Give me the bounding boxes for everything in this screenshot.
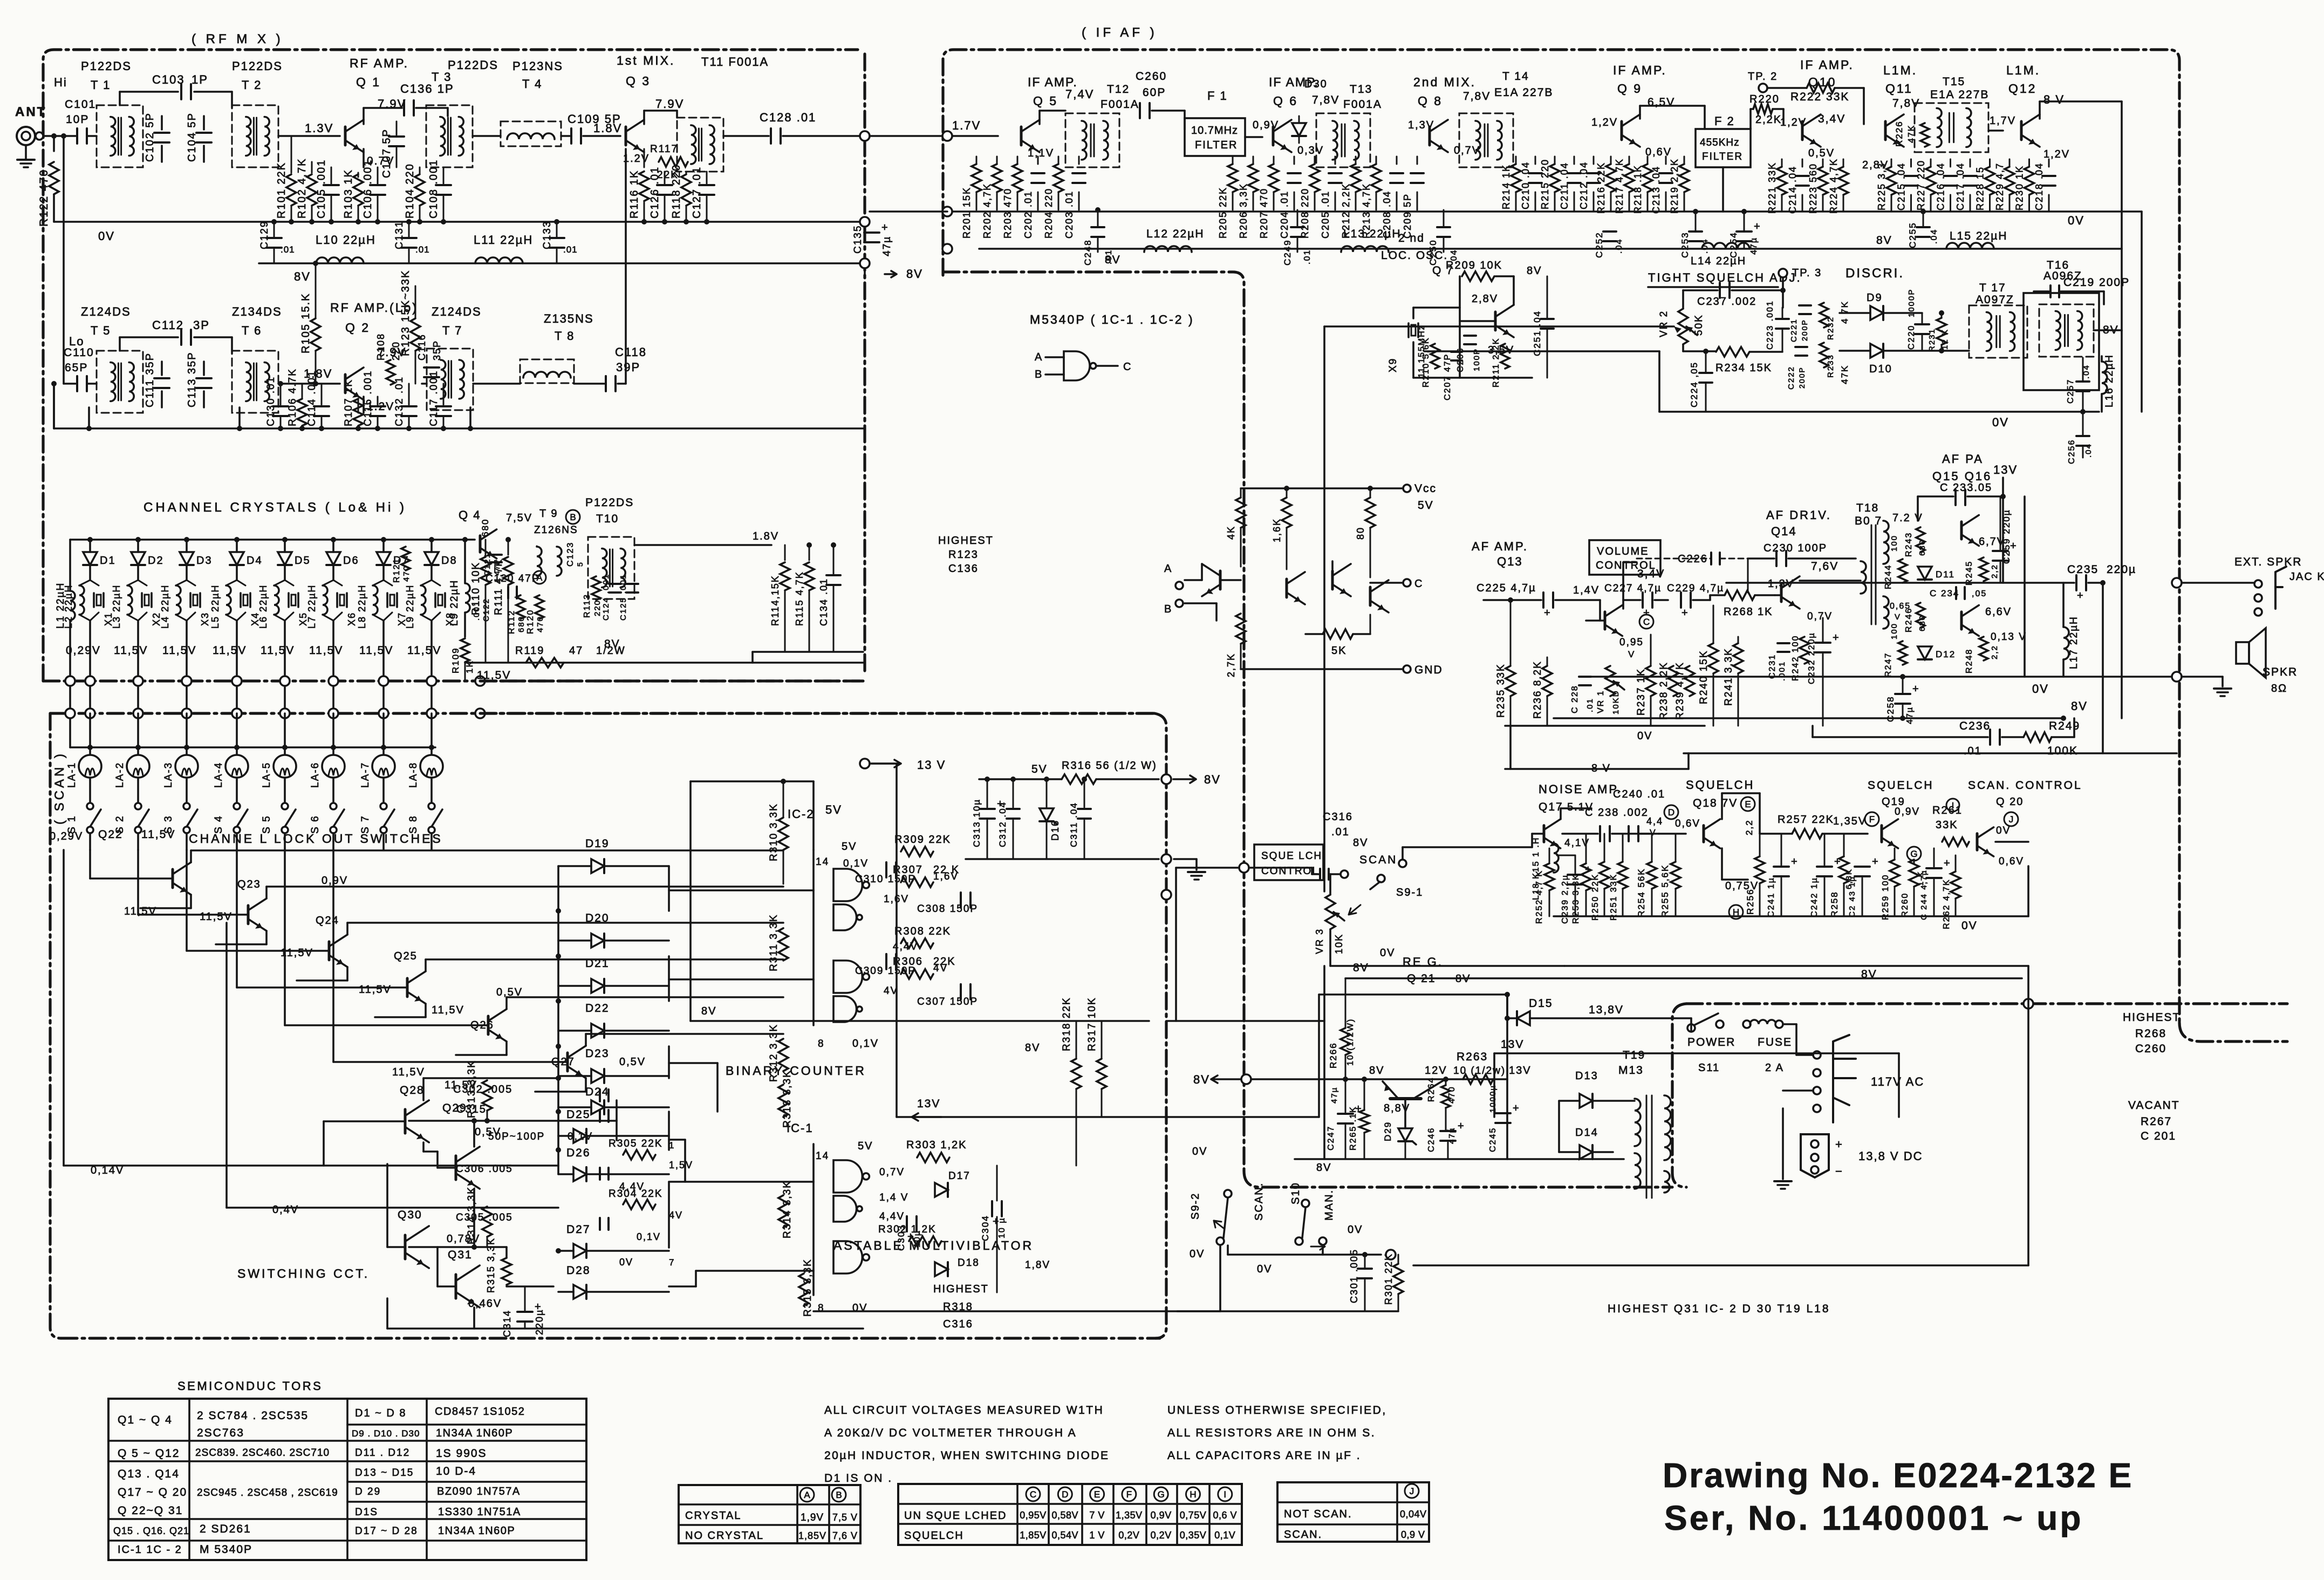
svg-text:E1A 227B: E1A 227B: [1930, 88, 1989, 101]
capacitor C309 150P: [885, 954, 887, 969]
svg-text:R258: R258: [1829, 891, 1840, 917]
IC internal transistor 3: [1331, 571, 1334, 589]
svg-text:R105 15.K: R105 15.K: [300, 292, 312, 353]
coil L12 22uH: [1144, 246, 1192, 252]
AF 8V rail: [1554, 717, 2063, 719]
capacitor C255 .04: [1917, 226, 1930, 228]
capacitor C245 1000u: [1495, 1112, 1510, 1114]
svg-text:8 V: 8 V: [1591, 762, 1611, 774]
svg-text:I: I: [1952, 801, 1954, 811]
capacitor C233 .05: [1954, 490, 1957, 505]
svg-text:C220: C220: [1907, 325, 1916, 350]
svg-text:.04: .04: [1450, 249, 1459, 264]
svg-text:0,5V: 0,5V: [496, 986, 523, 998]
svg-text:T 5: T 5: [91, 324, 111, 337]
capacitor C304 10u: [991, 1201, 993, 1216]
wire crystal column 4 down to scan bus: [236, 621, 238, 681]
resistor R231 12K: [1937, 318, 1946, 345]
svg-text:F: F: [1126, 1489, 1132, 1500]
svg-text:D17: D17: [948, 1170, 970, 1182]
svg-text:VR 3: VR 3: [1314, 928, 1325, 954]
svg-text:R221 33K: R221 33K: [1767, 162, 1778, 214]
capacitor C125 .001: [626, 583, 638, 585]
svg-text:8V: 8V: [1105, 254, 1121, 266]
svg-text:R204 220: R204 220: [1043, 188, 1054, 239]
svg-text:D: D: [1668, 807, 1674, 818]
ground rail under regulator: [966, 858, 1159, 860]
capacitor C260 60P: [1139, 103, 1141, 118]
svg-text:M 5340P: M 5340P: [200, 1543, 252, 1556]
svg-text:100K: 100K: [2047, 745, 2078, 757]
svg-text:+: +: [1682, 607, 1688, 619]
svg-text:D1 IS ON .: D1 IS ON .: [824, 1472, 893, 1484]
svg-text:M13: M13: [1618, 1064, 1644, 1077]
svg-text:D11: D11: [1936, 569, 1955, 580]
svg-text:C253: C253: [1680, 231, 1690, 258]
resistor R103 1K: [353, 174, 363, 206]
capacitor C130 .01: [273, 405, 288, 407]
svg-text:R262 4,7K: R262 4,7K: [1942, 878, 1951, 929]
svg-text:7: 7: [669, 1257, 675, 1268]
wire crystal column 7 down to scan bus: [382, 621, 385, 681]
svg-text:0,9V: 0,9V: [322, 875, 348, 887]
svg-text:11,5V: 11,5V: [200, 911, 233, 923]
capacitor C230 100P: [1775, 551, 1778, 566]
svg-text:C313 10µ: C313 10µ: [972, 799, 982, 847]
svg-text:S11: S11: [1698, 1062, 1720, 1074]
svg-text:8: 8: [818, 1038, 825, 1050]
svg-text:3P: 3P: [193, 318, 210, 332]
diode D30: [1292, 123, 1306, 136]
svg-text:Q 5 ~ Q12: Q 5 ~ Q12: [118, 1447, 180, 1460]
svg-text:7,6 V: 7,6 V: [832, 1530, 858, 1541]
svg-text:6,6V: 6,6V: [1985, 606, 2012, 618]
diode D19: [591, 859, 604, 873]
svg-text:11,5V: 11,5V: [359, 644, 393, 657]
svg-text:R211 2,2K: R211 2,2K: [1492, 338, 1501, 387]
svg-text:P122DS: P122DS: [448, 58, 498, 72]
svg-text:( RF M X ): ( RF M X ): [192, 32, 284, 46]
svg-text:D1Ѕ: D1Ѕ: [355, 1507, 378, 1518]
svg-text:0,1V: 0,1V: [1214, 1530, 1235, 1541]
capacitor C118 39P: [605, 376, 607, 391]
svg-text:TP. 2: TP. 2: [1748, 71, 1778, 83]
svg-text:0V: 0V: [1257, 1263, 1272, 1275]
svg-text:1,2V: 1,2V: [1780, 117, 1807, 128]
wire crystal column 1 down to scan bus: [89, 621, 91, 681]
svg-text:8V: 8V: [1204, 773, 1221, 786]
svg-text:2SC945 . 2SC458 , 2SC619: 2SC945 . 2SC458 , 2SC619: [197, 1487, 338, 1499]
IC-2 box wires: [812, 850, 815, 1025]
svg-text:10 (1/2w): 10 (1/2w): [1453, 1065, 1506, 1077]
svg-text:D13: D13: [1575, 1070, 1598, 1082]
svg-text:( SCAN ): ( SCAN ): [52, 751, 67, 825]
svg-text:C107 5P: C107 5P: [381, 128, 393, 178]
resistor R255 5.6K: [1671, 862, 1680, 889]
svg-text:0V: 0V: [2068, 214, 2084, 227]
svg-text:2 A: 2 A: [1765, 1062, 1784, 1074]
discri top node wires: [1782, 290, 1784, 308]
svg-text:R121: R121: [392, 558, 401, 583]
svg-text:AF AMP.: AF AMP.: [1472, 540, 1528, 553]
svg-text:R219 2,2K: R219 2,2K: [1669, 158, 1680, 214]
resistor R236 8.2K: [1542, 666, 1552, 696]
svg-text:A: A: [1035, 351, 1043, 363]
svg-text:Q24: Q24: [316, 915, 339, 927]
svg-text:C204 .01: C204 .01: [1279, 190, 1290, 239]
scan voltage table: [1277, 1482, 1429, 1542]
capacitor C314 220u: [517, 1311, 532, 1313]
svg-text:C 244 4,7µ: C 244 4,7µ: [1919, 869, 1929, 920]
svg-text:11,5V: 11,5V: [359, 984, 392, 996]
svg-text:1 V: 1 V: [1089, 1530, 1105, 1541]
svg-text:D30: D30: [1304, 78, 1328, 90]
svg-text:2,7K: 2,7K: [1226, 653, 1236, 677]
svg-text:D16: D16: [1050, 820, 1061, 841]
resistor R315 3.3K: [799, 1273, 809, 1306]
svg-text:47µ: 47µ: [1330, 1087, 1339, 1104]
svg-text:0,2V: 0,2V: [1118, 1530, 1139, 1541]
svg-text:.01: .01: [415, 244, 430, 255]
svg-text:Q 21: Q 21: [1407, 972, 1436, 985]
svg-text:C249: C249: [1282, 239, 1293, 265]
capacitor C235 220u: [2075, 575, 2077, 590]
wire lamp column 7: [382, 713, 385, 754]
svg-text:10KD: 10KD: [1611, 690, 1621, 714]
svg-text:13,8 V DC: 13,8 V DC: [1858, 1149, 1923, 1163]
AF amp 0V rail: [1505, 725, 1705, 727]
svg-text:Hi: Hi: [54, 76, 67, 89]
resistor R257 22K: [1792, 829, 1822, 839]
svg-text:.001: .001: [472, 601, 481, 621]
svg-text:220: 220: [391, 341, 401, 360]
crystal X6: [333, 580, 342, 585]
resistor R108 220: [386, 360, 395, 385]
svg-text:D5: D5: [295, 555, 311, 567]
svg-text:D11 . D12: D11 . D12: [355, 1447, 410, 1459]
svg-text:C315: C315: [456, 1104, 487, 1115]
svg-text:7,8V: 7,8V: [1463, 90, 1491, 103]
svg-text:D20: D20: [585, 912, 610, 924]
diode D25: [573, 1129, 586, 1143]
wire T6 to Q2: [278, 383, 340, 385]
power border right segment: [2136, 1002, 2287, 1005]
svg-text:R263: R263: [1457, 1051, 1488, 1063]
svg-text:VOLUME: VOLUME: [1597, 546, 1649, 557]
capacitor C253 .04: [1689, 230, 1702, 233]
svg-text:IF AMP.: IF AMP.: [1800, 58, 1854, 72]
resistor R260 1K: [1909, 860, 1919, 887]
Q1 collector wire to C136: [363, 108, 365, 124]
svg-text:2nd MIX.: 2nd MIX.: [1413, 75, 1476, 89]
transistor Q23: [247, 905, 250, 924]
svg-text:13,8V: 13,8V: [1589, 1004, 1624, 1016]
capacitor C109 5P: [570, 128, 572, 144]
scan box right border: [1154, 713, 1166, 1338]
svg-text:10K: 10K: [1334, 934, 1344, 954]
svg-text:R106 4.7K: R106 4.7K: [287, 368, 298, 426]
svg-text:2SC839. 2SC460. 2SC710: 2SC839. 2SC460. 2SC710: [195, 1447, 330, 1459]
svg-text:L1M.: L1M.: [2006, 63, 2040, 77]
wire base Q23: [137, 850, 139, 915]
diode D18: [935, 1262, 948, 1276]
svg-text:D1 ~ D 8: D1 ~ D 8: [355, 1407, 406, 1419]
svg-text:R203 470: R203 470: [1002, 188, 1013, 239]
capacitor C207 47P: [1451, 351, 1462, 353]
diode ladder rails: [557, 866, 559, 1174]
resistor R209 10K: [1462, 271, 1494, 281]
transistor Q6: [1272, 127, 1275, 145]
resistor R306 22K: [901, 969, 933, 979]
svg-text:R233: R233: [1826, 354, 1835, 378]
resistor R242 100: [1800, 637, 1809, 664]
svg-text:0,6V: 0,6V: [1675, 818, 1700, 829]
transformer T16 A096Z shield: [2024, 293, 2099, 390]
svg-text:VR 2: VR 2: [1658, 310, 1670, 337]
capacitor C237 .002: [1719, 283, 1721, 298]
svg-text:C106 .001: C106 .001: [362, 159, 374, 219]
svg-text:D15: D15: [1529, 997, 1553, 1010]
diode D23: [591, 1069, 604, 1083]
capacitor C104 5P: [203, 116, 205, 130]
svg-text:2 SD261: 2 SD261: [200, 1523, 251, 1535]
junction RF border 0V: [860, 217, 870, 227]
capacitor C301 .005: [1358, 1268, 1372, 1270]
capacitor C308 150P: [960, 893, 962, 908]
svg-text:F 1: F 1: [1207, 89, 1228, 103]
svg-text:T 8: T 8: [555, 329, 575, 343]
svg-text:R268: R268: [2135, 1027, 2166, 1040]
svg-text:1S 990S: 1S 990S: [436, 1447, 487, 1460]
emitter wire Q26: [505, 1041, 508, 1055]
AF 0V rail: [1591, 676, 2177, 678]
resistor R116 1K: [644, 149, 645, 167]
coil L9 22uH: [464, 540, 466, 583]
IC-2 nand gate 4: [833, 996, 857, 1022]
svg-text:D19: D19: [585, 837, 610, 850]
svg-text:R239 4,7K: R239 4,7K: [1674, 662, 1686, 720]
Q3 collector to T11: [643, 111, 645, 124]
svg-text:1N34A 1N60P: 1N34A 1N60P: [436, 1427, 513, 1439]
capacitor C254 47u: [1737, 230, 1752, 233]
svg-text:C224 ,05: C224 ,05: [1689, 362, 1699, 407]
svg-text:BZ090 1N757A: BZ090 1N757A: [437, 1486, 521, 1497]
svg-text:T10: T10: [596, 513, 619, 525]
svg-text:C127 .01: C127 .01: [691, 166, 703, 219]
svg-text:5V: 5V: [1418, 499, 1434, 512]
svg-text:0,1V: 0,1V: [852, 1038, 879, 1050]
svg-text:R242 100: R242 100: [1791, 635, 1800, 681]
svg-text:C229 4,7µ: C229 4,7µ: [1667, 583, 1724, 594]
svg-text:T 2: T 2: [242, 78, 262, 92]
resistor R305 22K: [623, 1150, 655, 1160]
svg-text:+: +: [1754, 221, 1760, 233]
svg-text:NOT SCAN.: NOT SCAN.: [1284, 1508, 1352, 1520]
svg-text:L9 22µH: L9 22µH: [405, 584, 415, 629]
svg-text:R117: R117: [650, 144, 678, 155]
svg-text:R108: R108: [375, 333, 386, 360]
svg-text:Vcc: Vcc: [1414, 482, 1437, 495]
diode D11: [1918, 567, 1932, 580]
svg-text:R215 220: R215 220: [1540, 159, 1550, 209]
svg-text:13 V: 13 V: [917, 758, 946, 772]
svg-text:C114 .001: C114 .001: [306, 370, 318, 426]
wire lamp column 1: [89, 713, 91, 754]
svg-text:B: B: [1035, 369, 1043, 380]
resistor cluster under Q11 Q12: [1886, 167, 1896, 195]
svg-text:SCAN: SCAN: [1359, 854, 1397, 866]
diode D24: [591, 1100, 604, 1114]
svg-text:11,5V: 11,5V: [213, 644, 247, 657]
IC-1 nand gate 3: [833, 1241, 862, 1273]
svg-text:7,8V: 7,8V: [1312, 94, 1339, 106]
capacitor C247 47u: [1338, 1113, 1353, 1115]
svg-text:UN SQUE LCHED: UN SQUE LCHED: [904, 1510, 1007, 1522]
8V rail above counter: [691, 1020, 1149, 1022]
svg-text:7,4V: 7,4V: [1065, 87, 1094, 101]
capacitor C121 47P: [491, 554, 502, 556]
lamp LA-8: [420, 755, 443, 778]
svg-text:R216 22K: R216 22K: [1596, 162, 1607, 214]
svg-text:D22: D22: [585, 1002, 610, 1014]
svg-text:T 1: T 1: [91, 78, 111, 92]
squelch top rail: [1684, 752, 2177, 754]
resistor R253 3.3K: [1581, 863, 1591, 890]
resistor R248 2.2: [1979, 637, 1988, 660]
svg-text:C213 .04: C213 .04: [1651, 166, 1662, 214]
svg-text:R315 3,3K: R315 3,3K: [802, 1258, 814, 1317]
svg-text:V: V: [1628, 649, 1635, 659]
svg-text:C304: C304: [980, 1215, 990, 1241]
svg-text:A: A: [804, 1490, 810, 1500]
svg-text:Q1 ~ Q 4: Q1 ~ Q 4: [118, 1414, 173, 1426]
svg-text:VACANT: VACANT: [2128, 1099, 2180, 1112]
svg-text:5V: 5V: [858, 1140, 873, 1152]
svg-text:D2: D2: [148, 555, 164, 567]
svg-text:R302 1,2K: R302 1,2K: [878, 1224, 937, 1235]
Q1 emitter to resistors: [363, 149, 365, 167]
diode D10: [1870, 344, 1883, 358]
svg-text:R228 15: R228 15: [1975, 166, 1986, 210]
svg-text:T 17: T 17: [1979, 282, 2006, 294]
resistor R258 6.8K: [1839, 856, 1849, 883]
IC-2 nand gate 2: [833, 904, 857, 930]
svg-text:P122DS: P122DS: [585, 496, 634, 509]
capacitor C110 65P: [64, 383, 76, 385]
svg-text:T 9: T 9: [539, 508, 558, 520]
svg-text:0,75V: 0,75V: [1180, 1510, 1207, 1521]
Q13 collector wire: [1622, 562, 1624, 609]
wire T2 to Q1 base: [278, 135, 340, 137]
svg-text:R112: R112: [507, 610, 516, 634]
svg-text:C113 35P: C113 35P: [186, 352, 198, 407]
svg-text:8V: 8V: [604, 638, 620, 650]
resistor R268 1K: [1725, 590, 1755, 600]
svg-text:D6: D6: [343, 555, 359, 567]
svg-text:SCAN. CONTROL: SCAN. CONTROL: [1968, 779, 2082, 792]
squelch 8V rail: [1564, 965, 2028, 967]
svg-text:C135: C135: [852, 225, 864, 254]
squelch bottom rail: [1554, 915, 2028, 917]
svg-text:T12: T12: [1107, 83, 1130, 96]
svg-text:8V: 8V: [906, 267, 923, 281]
svg-text:Q 22~Q 31: Q 22~Q 31: [118, 1504, 183, 1517]
svg-text:0V: 0V: [1992, 416, 2009, 429]
svg-text:L1M.: L1M.: [1883, 63, 1917, 77]
squelch wires vertical: [2027, 866, 2029, 916]
svg-text:C125 .001: C125 .001: [619, 574, 628, 621]
svg-text:T 6: T 6: [242, 324, 262, 337]
svg-text:R122 470: R122 470: [38, 169, 50, 227]
svg-text:R250 22K: R250 22K: [1591, 874, 1600, 921]
svg-text:R256: R256: [1745, 888, 1755, 915]
lamp LA-7: [372, 755, 395, 778]
svg-text:C242 1µ: C242 1µ: [1810, 877, 1819, 917]
svg-text:C307 150P: C307 150P: [917, 996, 978, 1007]
svg-text:8V: 8V: [1369, 1065, 1384, 1077]
svg-text:G: G: [1158, 1489, 1165, 1500]
svg-text:SCAN.: SCAN.: [1284, 1529, 1322, 1541]
potentiometer VR3 10K: [1325, 895, 1335, 929]
svg-text:CRYSTAL: CRYSTAL: [685, 1510, 741, 1522]
svg-text:V: V: [1895, 612, 1901, 622]
svg-text:13V: 13V: [917, 1098, 940, 1110]
svg-text:R207 470: R207 470: [1259, 188, 1269, 239]
svg-text:D 29: D 29: [355, 1486, 381, 1497]
svg-text:Q26: Q26: [470, 1019, 494, 1031]
coil L13 22uH: [1341, 246, 1389, 252]
capacitor C232 220u: [1815, 642, 1830, 644]
svg-text:L2 22µH: L2 22µH: [63, 584, 74, 629]
IC internal wires: [1201, 564, 1203, 580]
resistor R251 33K: [1618, 862, 1628, 889]
capacitor C220 1000P: [1915, 323, 1929, 325]
svg-text:R237 1K: R237 1K: [1636, 668, 1647, 716]
13V rail power: [897, 1116, 1319, 1118]
resistor R237 1K: [1646, 666, 1656, 696]
svg-text:1P: 1P: [192, 73, 208, 86]
svg-text:13V: 13V: [1993, 463, 2018, 476]
capacitor C114 .001: [314, 405, 329, 407]
svg-text:11,5V: 11,5V: [141, 828, 175, 841]
svg-text:10 (1/2W): 10 (1/2W): [1346, 1018, 1355, 1066]
capacitor C302 .005: [599, 1089, 601, 1101]
svg-text:C257: C257: [2066, 379, 2075, 404]
transistor Q28: [404, 1109, 407, 1133]
svg-text:470: 470: [1447, 1086, 1457, 1104]
svg-text:.01: .01: [1585, 698, 1595, 712]
svg-text:C 228: C 228: [1570, 685, 1580, 713]
IC internal transistor 4: [1369, 587, 1372, 605]
wire scan bus right extension: [480, 679, 863, 682]
wire lamp column 6: [332, 713, 334, 754]
svg-text:0,3V: 0,3V: [1297, 145, 1324, 156]
resistor R313 3.3K: [482, 1080, 492, 1111]
svg-text:P122DS: P122DS: [81, 59, 132, 73]
svg-text:C110: C110: [64, 346, 94, 359]
svg-text:FUSE: FUSE: [1758, 1036, 1792, 1048]
capacitor C256 .04: [2076, 435, 2089, 437]
svg-text:Q 5: Q 5: [1033, 94, 1058, 108]
TP3 terminal: [1779, 269, 1787, 277]
svg-text:SQUELCH: SQUELCH: [1868, 779, 1934, 792]
svg-text:C136: C136: [948, 563, 979, 575]
svg-text:RE G.: RE G.: [1403, 955, 1443, 969]
svg-text:1,5V: 1,5V: [669, 1160, 693, 1170]
svg-text:C2 43 1µ: C2 43 1µ: [1848, 876, 1857, 917]
svg-text:C237 .002: C237 .002: [1697, 296, 1756, 308]
svg-text:0,7V: 0,7V: [879, 1167, 905, 1178]
